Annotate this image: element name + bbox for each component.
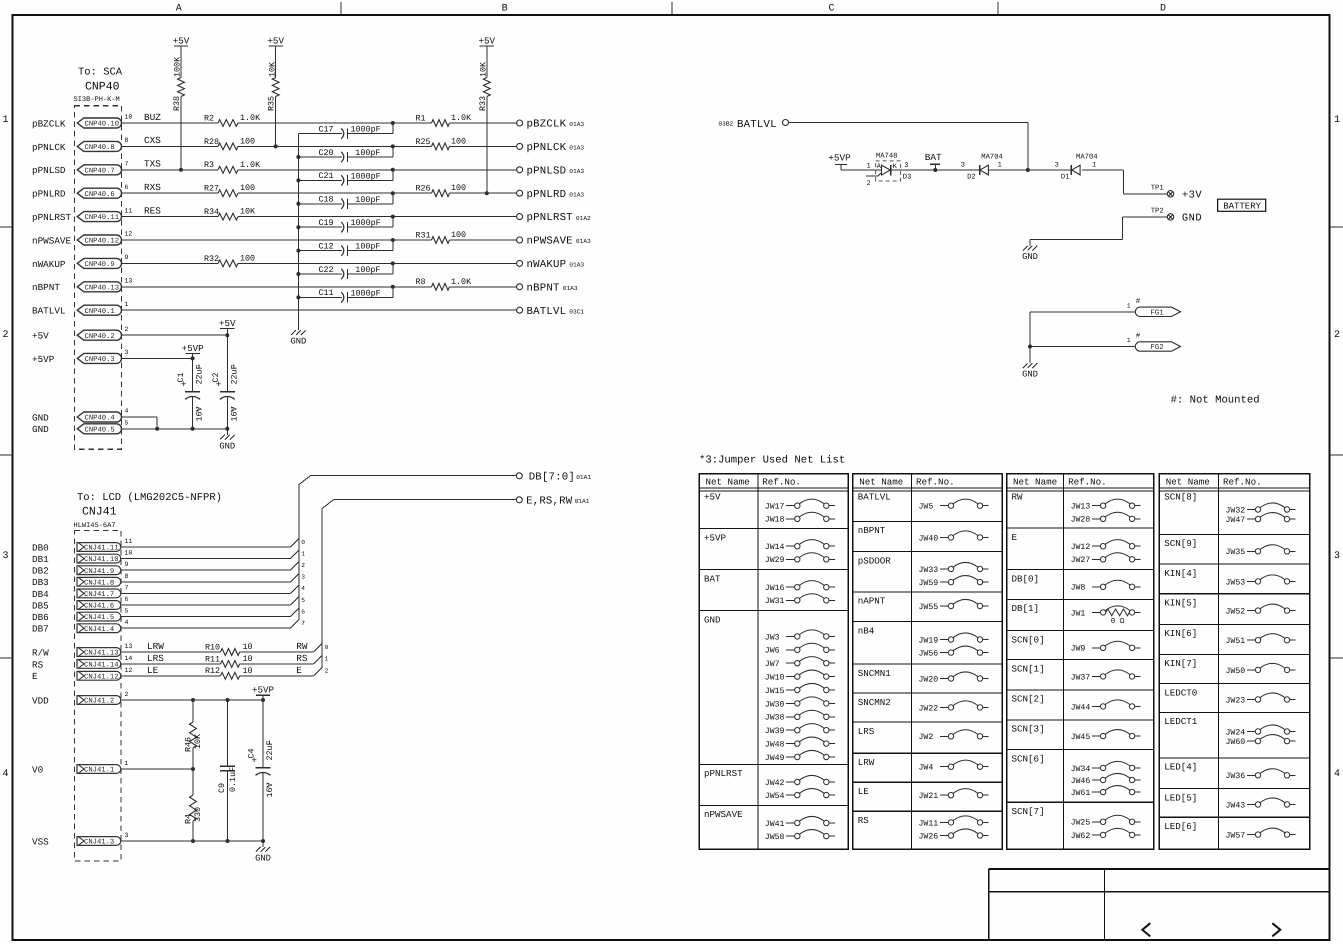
svg-text:JW19: JW19 xyxy=(919,636,939,645)
net LRW jumpers JW4 xyxy=(853,753,1002,772)
wire TP2 to ground xyxy=(1030,217,1167,240)
svg-text:01A3: 01A3 xyxy=(569,191,584,198)
connector pin CNP40.2 (+5V) xyxy=(32,326,129,342)
svg-text:BUZ: BUZ xyxy=(144,112,161,123)
svg-text:V0: V0 xyxy=(32,764,43,775)
svg-text:JW17: JW17 xyxy=(765,503,785,512)
svg-text:2: 2 xyxy=(325,668,329,675)
svg-text:JW46: JW46 xyxy=(1071,777,1091,786)
svg-text:10: 10 xyxy=(243,666,253,676)
svg-text:DB3: DB3 xyxy=(32,577,49,588)
svg-text:pPNLRST: pPNLRST xyxy=(704,768,743,779)
table title *3:Jumper Used Net List xyxy=(699,455,845,467)
svg-text:12: 12 xyxy=(125,667,133,674)
svg-text:SCN[3]: SCN[3] xyxy=(1012,724,1045,735)
svg-text:0 Ω: 0 Ω xyxy=(1111,617,1125,626)
connector pin CNJ41.11 (DB0) xyxy=(32,538,132,553)
svg-text:+5VP: +5VP xyxy=(828,153,851,164)
wire BATLVL to diode node xyxy=(789,123,1030,173)
terminal pPNLRST 01A2 xyxy=(517,212,591,224)
svg-text:JW61: JW61 xyxy=(1071,789,1091,798)
svg-text:SCN[6]: SCN[6] xyxy=(1012,753,1045,764)
svg-text:pPNLCK: pPNLCK xyxy=(32,142,66,153)
net LEDCT1 jumpers JW24,JW60 xyxy=(1159,712,1310,747)
svg-text:1: 1 xyxy=(1127,302,1131,309)
resistor R33 10K pull-up xyxy=(478,46,490,195)
wire DB4 to bus xyxy=(121,585,305,593)
terminal nWAKUP 01A3 xyxy=(517,259,585,271)
svg-text:nBPNT: nBPNT xyxy=(527,282,560,294)
svg-text:GND: GND xyxy=(32,424,49,435)
svg-text:1: 1 xyxy=(867,162,871,170)
svg-text:E: E xyxy=(1012,532,1018,543)
diode D2 MA704 xyxy=(961,153,1003,181)
svg-text:BAT: BAT xyxy=(704,573,721,584)
svg-text:3: 3 xyxy=(1334,551,1340,562)
svg-text:DB[1]: DB[1] xyxy=(1012,603,1040,614)
svg-text:E: E xyxy=(32,671,38,682)
svg-text:3: 3 xyxy=(1055,162,1059,170)
svg-text:JW54: JW54 xyxy=(765,792,785,801)
svg-text:LE: LE xyxy=(858,786,870,797)
svg-text:DB4: DB4 xyxy=(32,589,49,600)
svg-text:R25: R25 xyxy=(416,137,431,147)
svg-text:B: B xyxy=(502,4,508,15)
test point TP1 +3V xyxy=(1124,170,1203,202)
net pPNLRST jumpers JW42,JW54 xyxy=(699,764,848,801)
svg-text:CNJ41.1: CNJ41.1 xyxy=(84,767,114,775)
net pSDOOR jumpers JW33,JW59 xyxy=(853,552,1002,588)
svg-text:JW53: JW53 xyxy=(1226,578,1246,587)
svg-text:2: 2 xyxy=(1334,330,1340,341)
svg-text:JW9: JW9 xyxy=(1071,645,1086,654)
svg-text:JW38: JW38 xyxy=(765,714,785,723)
svg-text:LRW: LRW xyxy=(147,641,164,652)
svg-text:6: 6 xyxy=(125,184,129,191)
wire nPWSAVE row xyxy=(122,239,517,241)
wire VSS rail xyxy=(121,839,265,843)
net nB4 jumpers JW19,JW56 xyxy=(853,622,1002,659)
connector pin CNJ41.3 (VSS) xyxy=(32,832,129,847)
svg-text:SNCMN1: SNCMN1 xyxy=(858,668,892,679)
svg-text:100K: 100K xyxy=(173,56,183,77)
svg-text:C12: C12 xyxy=(319,241,334,251)
zone column labels A B C D with ticks xyxy=(176,2,1166,15)
svg-text:JW29: JW29 xyxy=(765,556,785,565)
svg-text:2: 2 xyxy=(196,407,200,414)
svg-text:+5V: +5V xyxy=(267,35,284,46)
svg-text:R1: R1 xyxy=(416,113,426,123)
resistor R27 100 xyxy=(204,183,255,196)
connector pin CNJ41.9 (DB2) xyxy=(32,561,129,576)
svg-text:1: 1 xyxy=(232,364,236,371)
wire V0 xyxy=(121,767,195,771)
svg-text:DB5: DB5 xyxy=(32,600,49,611)
power +5VP xyxy=(252,685,275,700)
svg-text:8: 8 xyxy=(125,573,129,580)
net E,RS,RW bus exit xyxy=(322,496,590,668)
svg-text:1000pF: 1000pF xyxy=(351,125,381,135)
svg-text:CNJ41.8: CNJ41.8 xyxy=(84,579,114,587)
svg-text:CNP40.13: CNP40.13 xyxy=(85,284,120,292)
svg-text:JW13: JW13 xyxy=(1071,503,1091,512)
wire RW to bus xyxy=(240,641,329,652)
net KIN[7] jumpers JW50 xyxy=(1159,654,1310,675)
svg-text:1000pF: 1000pF xyxy=(351,288,381,298)
svg-text:CNJ41.6: CNJ41.6 xyxy=(84,603,114,611)
svg-text:14: 14 xyxy=(125,655,133,662)
svg-text:DB0: DB0 xyxy=(32,542,49,553)
svg-text:2: 2 xyxy=(125,691,129,698)
svg-text:CNJ41.4: CNJ41.4 xyxy=(84,626,114,634)
svg-text:1000pF: 1000pF xyxy=(351,171,381,181)
svg-text:+3V: +3V xyxy=(1182,190,1202,202)
net LED[6] jumpers JW57 xyxy=(1159,817,1310,840)
svg-text:R/W: R/W xyxy=(32,647,49,658)
svg-text:JW30: JW30 xyxy=(765,700,785,709)
svg-text:01A3: 01A3 xyxy=(563,285,578,292)
svg-text:3: 3 xyxy=(125,349,129,356)
resistor R38 100K pull-up xyxy=(172,46,184,172)
svg-text:GND: GND xyxy=(290,337,306,347)
svg-text:4: 4 xyxy=(125,408,129,415)
svg-text:JW6: JW6 xyxy=(765,647,780,656)
svg-text:CNP40.8: CNP40.8 xyxy=(85,144,115,152)
svg-text:LRW: LRW xyxy=(858,757,875,768)
svg-text:CNJ41.9: CNJ41.9 xyxy=(84,568,114,576)
wire GND pins to rail xyxy=(122,417,230,431)
svg-text:JW55: JW55 xyxy=(919,603,939,612)
svg-text:6: 6 xyxy=(125,596,129,603)
svg-text:DB7: DB7 xyxy=(32,624,49,635)
resistor R28 100 xyxy=(204,136,255,149)
wire DB6 to bus xyxy=(121,608,305,616)
svg-text:TXS: TXS xyxy=(144,159,161,170)
svg-text:D3: D3 xyxy=(903,174,912,182)
capacitor C17 1000pF xyxy=(298,121,394,139)
svg-text:+5V: +5V xyxy=(32,331,49,342)
svg-text:JW39: JW39 xyxy=(765,727,785,736)
svg-text:C11: C11 xyxy=(319,288,334,298)
svg-text:nWAKUP: nWAKUP xyxy=(32,259,66,270)
capacitor C18 100pF xyxy=(296,191,394,209)
svg-text:R8: R8 xyxy=(416,277,426,287)
svg-text:C2: C2 xyxy=(211,372,221,382)
svg-text:pPNLRD: pPNLRD xyxy=(32,189,66,200)
svg-text:5: 5 xyxy=(301,597,305,604)
net LE jumpers JW21 xyxy=(853,782,1002,801)
svg-text:5: 5 xyxy=(125,608,129,615)
svg-text:JW47: JW47 xyxy=(1226,516,1246,525)
wire DB2 to bus xyxy=(121,562,305,570)
svg-text:KIN[4]: KIN[4] xyxy=(1164,568,1197,579)
connector CNJ41 dashed outline xyxy=(74,530,121,861)
svg-text:R26: R26 xyxy=(416,184,431,194)
svg-text:R10: R10 xyxy=(205,642,220,652)
svg-text:nWAKUP: nWAKUP xyxy=(527,259,567,271)
resistor R46 10K xyxy=(184,700,203,769)
svg-text:Net Name: Net Name xyxy=(1013,476,1057,487)
svg-text:4: 4 xyxy=(1334,769,1340,780)
svg-text:DB1: DB1 xyxy=(32,554,49,565)
connector pin CNP40.4 (GND) xyxy=(32,408,129,424)
capacitor C2 22uF 16V xyxy=(211,335,240,429)
svg-text:R11: R11 xyxy=(205,654,220,664)
title block xyxy=(989,869,1330,940)
terminal pPNLSD 01A3 xyxy=(517,165,585,177)
svg-text:GND: GND xyxy=(1022,370,1038,380)
svg-text:JW15: JW15 xyxy=(765,687,785,696)
svg-text:CNJ41.12: CNJ41.12 xyxy=(84,673,119,681)
capacitor C22 100pF xyxy=(296,261,394,279)
svg-text:10K: 10K xyxy=(478,61,488,77)
resistor R32 100 xyxy=(204,253,255,266)
capacitor C9 0.1uF xyxy=(217,700,238,841)
connector pin CNP40.9 (nWAKUP) xyxy=(32,254,129,270)
net DB[1] jumpers JW1 xyxy=(1007,599,1154,626)
svg-text:2: 2 xyxy=(867,180,871,188)
svg-text:GND: GND xyxy=(1022,252,1038,262)
wire RS to bus xyxy=(240,653,329,664)
wire +5VP xyxy=(122,356,195,360)
svg-text:JW26: JW26 xyxy=(919,832,939,841)
svg-text:3: 3 xyxy=(2,551,8,562)
svg-text:JW40: JW40 xyxy=(919,534,939,543)
svg-text:JW4: JW4 xyxy=(919,764,934,773)
svg-text:10: 10 xyxy=(125,550,133,557)
connector pin CNP40.10 (pBZCLK) xyxy=(32,112,161,130)
svg-text:R27: R27 xyxy=(204,184,219,194)
svg-text:0: 0 xyxy=(325,644,329,651)
svg-text:JW1: JW1 xyxy=(1071,609,1086,618)
svg-text:MA704: MA704 xyxy=(981,153,1003,161)
svg-text:DB6: DB6 xyxy=(32,612,49,623)
net nAPNT jumpers JW55 xyxy=(853,592,1002,612)
svg-text:01A2: 01A2 xyxy=(576,215,591,222)
connector CNP40 dashed outline xyxy=(74,106,121,450)
svg-text:JW37: JW37 xyxy=(1071,673,1091,682)
svg-text:JW59: JW59 xyxy=(919,579,939,588)
svg-text:JW56: JW56 xyxy=(919,650,939,659)
svg-text:E,RS,RW: E,RS,RW xyxy=(526,496,573,508)
connector pin CNP40.12 (nPWSAVE) xyxy=(32,231,132,247)
wire DB7 to bus xyxy=(121,620,305,628)
svg-text:nB4: nB4 xyxy=(858,625,875,636)
svg-text:CNJ41.3: CNJ41.3 xyxy=(84,839,114,847)
svg-text:C17: C17 xyxy=(319,124,334,134)
svg-text:pPNLSD: pPNLSD xyxy=(32,165,66,176)
svg-text:JW7: JW7 xyxy=(765,660,780,669)
svg-text:3: 3 xyxy=(301,574,305,581)
svg-text:C1: C1 xyxy=(176,372,186,382)
svg-text:nBPNT: nBPNT xyxy=(858,525,886,536)
svg-text:10: 10 xyxy=(243,654,253,664)
svg-text:0: 0 xyxy=(301,539,305,546)
resistor R25 100 xyxy=(416,136,467,149)
terminal BATLVL 03C1 xyxy=(517,306,585,318)
svg-text:To: SCA: To: SCA xyxy=(78,67,123,79)
zone row labels right 1-4 xyxy=(1330,115,1343,780)
svg-text:CNP40.12: CNP40.12 xyxy=(85,238,120,246)
svg-text:CNP40.6: CNP40.6 xyxy=(85,191,115,199)
table jumper list column 1 header xyxy=(699,474,848,849)
svg-text:JW33: JW33 xyxy=(919,566,939,575)
svg-text:SCN[2]: SCN[2] xyxy=(1012,694,1045,705)
svg-text:5: 5 xyxy=(125,420,129,427)
svg-text:CNP40.10: CNP40.10 xyxy=(85,121,120,129)
svg-text:11: 11 xyxy=(125,538,133,545)
connector pin CNJ41.10 (DB1) xyxy=(32,550,132,565)
table jumper list column 3 header xyxy=(1007,474,1154,849)
svg-text:Ref.No.: Ref.No. xyxy=(1068,476,1107,487)
net nBPNT jumpers JW40 xyxy=(853,521,1002,543)
resistor R12 10 xyxy=(121,666,253,679)
resistor R35 10K pull-up xyxy=(267,46,279,148)
svg-text:JW2: JW2 xyxy=(919,733,934,742)
svg-text:JW57: JW57 xyxy=(1226,832,1246,841)
net KIN[6] jumpers JW51 xyxy=(1159,624,1310,646)
svg-text:RW: RW xyxy=(296,641,308,652)
zone row labels left 1-4 xyxy=(0,115,13,780)
wire DB0 to bus xyxy=(121,539,305,547)
connector pin CNJ41.8 (DB3) xyxy=(32,573,129,588)
net SNCMN2 jumpers JW22 xyxy=(853,693,1002,713)
resistor R26 100 xyxy=(416,183,467,196)
resistor R3 1.0K xyxy=(204,160,261,173)
ground (FG) xyxy=(1022,363,1038,380)
svg-text:+5V: +5V xyxy=(219,318,236,329)
svg-text:GND: GND xyxy=(1182,213,1202,225)
svg-text:100: 100 xyxy=(451,183,466,193)
resistor R2 1.0K xyxy=(204,113,261,126)
svg-text:R35: R35 xyxy=(267,96,277,111)
svg-text:3: 3 xyxy=(125,832,129,839)
capacitor C21 1000pF xyxy=(296,168,394,186)
wire DB5 to bus xyxy=(121,597,305,605)
svg-text:C20: C20 xyxy=(319,148,334,158)
svg-text:7: 7 xyxy=(125,584,129,591)
svg-text:1: 1 xyxy=(268,740,272,747)
svg-text:01A1: 01A1 xyxy=(576,474,591,481)
svg-text:pSDOOR: pSDOOR xyxy=(858,555,892,566)
svg-text:pBZCLK: pBZCLK xyxy=(527,119,567,131)
svg-text:JW58: JW58 xyxy=(765,833,785,842)
svg-text:JW52: JW52 xyxy=(1226,608,1246,617)
connector pin CNP40.11 (pPNLRST) xyxy=(32,205,161,223)
svg-text:R38: R38 xyxy=(172,96,182,111)
power +5V xyxy=(479,35,496,46)
svg-text:2: 2 xyxy=(2,330,8,341)
svg-text:nAPNT: nAPNT xyxy=(858,596,886,607)
svg-text:pPNLSD: pPNLSD xyxy=(527,165,567,177)
wire +5V to power symbol xyxy=(122,333,230,337)
resistor R4 330 xyxy=(184,769,203,841)
svg-text:Ref.No.: Ref.No. xyxy=(1223,476,1262,487)
svg-text:JW11: JW11 xyxy=(919,819,939,828)
svg-text:01A3: 01A3 xyxy=(569,168,584,175)
svg-text:01A3: 01A3 xyxy=(569,121,584,128)
svg-text:TP1: TP1 xyxy=(1151,184,1164,192)
svg-text:#: # xyxy=(1136,333,1141,341)
svg-text:DB2: DB2 xyxy=(32,566,49,577)
svg-text:01A3: 01A3 xyxy=(569,145,584,152)
svg-text:+5VP: +5VP xyxy=(32,354,55,365)
svg-text:10: 10 xyxy=(243,642,253,652)
power +5V xyxy=(267,35,284,46)
connector pin CNJ41.5 (DB6) xyxy=(32,608,129,623)
ground (CNP40 rail) xyxy=(219,429,235,452)
svg-text:1: 1 xyxy=(325,656,329,663)
svg-text:3: 3 xyxy=(904,162,908,170)
svg-text:BATLVL: BATLVL xyxy=(858,492,891,503)
svg-text:JW20: JW20 xyxy=(919,675,939,684)
capacitor C19 1000pF xyxy=(296,215,394,233)
connector CNP40 header To: SCA xyxy=(74,67,123,104)
svg-text:+5VP: +5VP xyxy=(252,685,275,696)
net SNCMN1 jumpers JW20 xyxy=(853,664,1002,684)
power +5V xyxy=(219,318,236,335)
svg-text:CNP40.5: CNP40.5 xyxy=(85,426,115,434)
svg-text:JW12: JW12 xyxy=(1071,543,1091,552)
net LEDCT0 jumpers JW23 xyxy=(1159,684,1310,706)
test point TP2 GND xyxy=(1151,207,1202,224)
connector pin CNJ41.12 (E) xyxy=(32,665,159,682)
diode D3 MA748 (dual) xyxy=(866,152,911,188)
svg-text:JW5: JW5 xyxy=(919,503,934,512)
svg-text:pPNLRST: pPNLRST xyxy=(32,212,71,223)
svg-text:KIN[6]: KIN[6] xyxy=(1164,628,1197,639)
net LRS jumpers JW2 xyxy=(853,722,1002,742)
svg-text:CNJ41.14: CNJ41.14 xyxy=(84,662,119,670)
svg-text:#: Not Mounted: #: Not Mounted xyxy=(1171,395,1260,407)
svg-text:7: 7 xyxy=(125,161,129,168)
wire DB3 to bus xyxy=(121,573,305,581)
svg-text:1: 1 xyxy=(125,301,129,308)
ground (LCD rail) xyxy=(255,841,271,864)
connector pin CNP40.7 (pPNLSD) xyxy=(32,159,161,177)
capacitor C11 1000pF xyxy=(296,285,394,303)
svg-text:7: 7 xyxy=(301,620,305,627)
capacitor C20 100pF xyxy=(296,144,394,162)
connector pin CNJ41.1 (V0) xyxy=(32,760,129,775)
svg-text:1: 1 xyxy=(2,115,8,126)
svg-text:pBZCLK: pBZCLK xyxy=(32,118,66,129)
svg-text:KIN[5]: KIN[5] xyxy=(1164,598,1197,609)
net LED[5] jumpers JW43 xyxy=(1159,789,1310,811)
net KIN[5] jumpers JW52 xyxy=(1159,594,1310,617)
svg-text:CNJ41: CNJ41 xyxy=(82,506,117,519)
net SCN[2] jumpers JW44 xyxy=(1007,690,1154,712)
svg-text:D: D xyxy=(1160,4,1166,15)
wire BATLVL row xyxy=(122,309,517,311)
power +5V xyxy=(173,35,190,46)
svg-text:03C1: 03C1 xyxy=(569,308,584,315)
svg-text:CNJ41.5: CNJ41.5 xyxy=(84,614,114,622)
svg-text:#: # xyxy=(1136,298,1141,306)
svg-text:1: 1 xyxy=(125,760,129,767)
terminal FG1 (not mounted) xyxy=(1127,298,1181,317)
svg-text:R3: R3 xyxy=(204,160,214,170)
svg-text:SCN[1]: SCN[1] xyxy=(1012,663,1045,674)
svg-text:RES: RES xyxy=(144,205,161,216)
svg-text:100pF: 100pF xyxy=(355,195,380,205)
svg-text:JW22: JW22 xyxy=(919,704,939,713)
svg-text:4: 4 xyxy=(2,769,8,780)
svg-text:JW43: JW43 xyxy=(1226,801,1246,810)
svg-text:100: 100 xyxy=(240,253,255,263)
svg-text:JW48: JW48 xyxy=(765,741,785,750)
svg-text:D1: D1 xyxy=(1061,174,1070,182)
